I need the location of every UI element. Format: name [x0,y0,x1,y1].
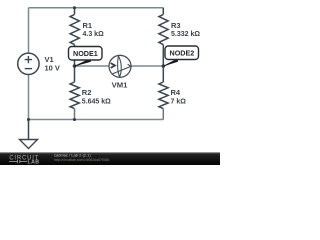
VM1 meter arc 2 [118,56,120,77]
svg-text:VM1: VM1 [112,80,129,89]
svg-text:R4: R4 [171,88,181,97]
V1 plus sign [25,56,32,63]
svg-text:4.3 kΩ: 4.3 kΩ [83,31,105,38]
svg-text:cadmac / Lab 2 (2.1): cadmac / Lab 2 (2.1) [54,152,91,157]
resistor R4 body column [162,66,164,82]
junction dot R2 bottom [73,118,76,121]
resistor R1 body column [74,8,76,66]
resistor R3 zigzag [159,14,168,44]
footer logo LAB [9,160,27,163]
ground [20,140,38,149]
resistor R2 body column [74,66,76,82]
junction dot ground tap [27,118,30,121]
footer bar [0,152,220,165]
svg-text:NODE1: NODE1 [73,49,98,58]
VM1 needle [112,64,131,74]
resistor R4 zigzag [159,82,168,109]
flag NODE1 tail [75,59,91,66]
junction dot node B (NODE2) [162,64,166,68]
svg-text:10 V: 10 V [45,64,60,73]
VM1 meter arc 1 [118,56,121,77]
resistor R2 zigzag [70,82,79,109]
flag NODE2 tail [163,59,177,66]
junction dot node A (NODE1) [73,64,77,68]
svg-text:V1: V1 [45,55,54,64]
V1 minus sign [25,68,32,70]
svg-text:NODE2: NODE2 [170,49,195,58]
svg-text:R1: R1 [83,21,93,30]
svg-text:R3: R3 [171,21,181,30]
resistor R3 body column [162,8,164,66]
wire: left rail lower (V1 bottom to bottom rail) [28,74,30,119]
resistor R1 zigzag [70,14,79,44]
svg-text:http://circuitlab.com/c/6962da: http://circuitlab.com/c/6962da875366 [54,158,110,162]
flag NODE1 box [69,47,103,61]
svg-text:5.332 kΩ: 5.332 kΩ [171,31,200,38]
wire: middle right (voltmeter to node2) [131,65,163,67]
wire: middle left (node1 to voltmeter) [75,65,110,67]
junction dot at R1 top [73,6,76,9]
svg-text:R2: R2 [82,88,92,97]
VM1 polarity mark [111,63,115,68]
ground lead [28,120,30,140]
svg-text:LAB: LAB [28,160,40,165]
svg-text:5.645 kΩ: 5.645 kΩ [82,99,111,106]
wire: top rail [29,7,164,9]
wire: left rail upper (to V1 top) [28,8,30,53]
svg-text:7 kΩ: 7 kΩ [171,99,187,106]
flag NODE2 box [165,46,199,60]
voltmeter VM1 [109,55,131,77]
voltage source V1 [18,53,39,74]
wire: bottom rail [29,119,164,121]
